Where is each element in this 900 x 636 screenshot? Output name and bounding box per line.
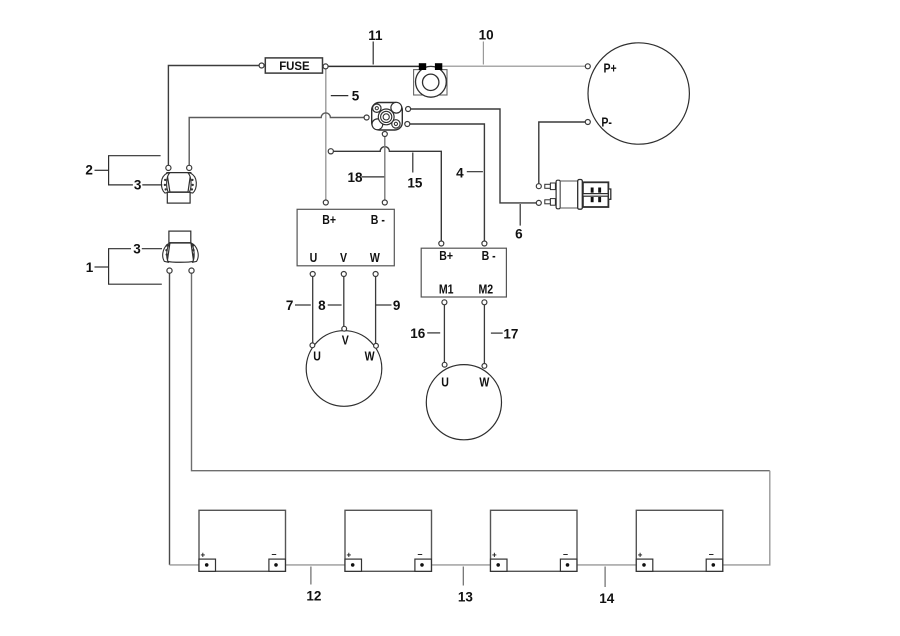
svg-text:U: U [313, 348, 321, 363]
motor M1 (U/V/W) [306, 326, 382, 406]
node A: tap on fuse line feeding controller2 [328, 149, 333, 154]
label 7 [286, 298, 311, 313]
label 15 [407, 153, 423, 191]
wire: valve bottom terminal down to controller1 B- [384, 137, 386, 201]
svg-text:+: + [201, 551, 206, 560]
label 14 [599, 567, 615, 606]
label 6 [515, 204, 523, 242]
label 4 [456, 165, 483, 180]
svg-text:15: 15 [407, 175, 423, 190]
battery B1 [199, 510, 286, 571]
svg-text:+: + [638, 551, 643, 560]
valve / throttle unit [364, 102, 411, 136]
svg-text:–: – [563, 549, 568, 559]
label 3 (upper) [134, 178, 162, 193]
wire: valve right-top terminal to solenoid bottom terminal [411, 109, 537, 203]
motor M2 (U/W) [426, 362, 501, 439]
wire: controller1 W to motor1 W [375, 277, 377, 344]
label 12 [306, 567, 321, 604]
svg-text:9: 9 [393, 298, 401, 313]
label 2 with bracket [85, 156, 160, 185]
svg-text:P+: P+ [604, 60, 617, 75]
svg-text:4: 4 [456, 165, 464, 180]
svg-text:M2: M2 [479, 281, 494, 296]
svg-text:16: 16 [410, 326, 426, 341]
wire: controller1 U to motor1 U [312, 277, 314, 344]
svg-text:+: + [492, 551, 497, 560]
wire: lower connector left terminal down to battery1 plus [169, 273, 171, 565]
svg-text:P-: P- [601, 115, 612, 130]
wire: valve right-bottom terminal to controller2 B- [410, 124, 485, 241]
solenoid terminals [536, 184, 541, 189]
svg-text:2: 2 [85, 163, 93, 178]
wire: fuse to upper connector left terminal [168, 66, 259, 166]
battery B2 [345, 510, 432, 571]
wire: key switch to pump motor P+ [442, 65, 585, 67]
wire: node A junction to controller2 B+ (hop over valve wire) [333, 147, 441, 241]
label 10 [479, 27, 494, 64]
svg-text:6: 6 [515, 227, 523, 242]
wire: controller1 V to motor1 V [343, 277, 345, 327]
fuse F1 [259, 58, 328, 73]
svg-text:–: – [709, 549, 714, 559]
svg-text:10: 10 [479, 27, 494, 42]
svg-text:FUSE: FUSE [279, 59, 310, 73]
label 18 [348, 170, 385, 185]
svg-text:17: 17 [503, 327, 518, 342]
label 9 [376, 298, 401, 313]
wire: controller2 M2 to motor2 W [483, 305, 485, 364]
label 1 with bracket [86, 249, 162, 285]
svg-text:–: – [418, 549, 423, 559]
key switch S1 [414, 63, 447, 97]
svg-text:U: U [310, 250, 318, 265]
svg-text:18: 18 [348, 170, 364, 185]
label 5 [331, 89, 360, 104]
wire: battery3 to battery4 link [568, 564, 644, 566]
controller U2 (B+/B-/M1/M2) [421, 241, 506, 305]
valve terminals [364, 115, 369, 120]
svg-text:+: + [347, 551, 352, 560]
svg-text:8: 8 [318, 298, 326, 313]
svg-text:W: W [479, 374, 490, 389]
svg-text:B+: B+ [322, 212, 336, 227]
svg-text:1: 1 [86, 260, 94, 275]
wire: fuse right terminal down to controller1 B+ [325, 69, 327, 200]
svg-text:11: 11 [368, 28, 383, 43]
svg-text:V: V [340, 250, 347, 265]
wire: lower connector right terminal return to battery4 minus [192, 273, 770, 471]
wire: upper connector right terminal to valve left terminal (hop over vertical) [189, 113, 364, 166]
svg-text:B -: B - [482, 248, 496, 263]
wire: controller2 M1 to motor2 U [443, 305, 445, 362]
svg-text:12: 12 [306, 589, 321, 604]
svg-text:W: W [370, 250, 381, 265]
solenoid / contactor [536, 180, 611, 210]
svg-text:5: 5 [352, 89, 360, 104]
label 11 [368, 28, 383, 64]
wire: battery1 to battery2 link [276, 564, 352, 566]
svg-text:U: U [441, 374, 449, 389]
svg-text:14: 14 [599, 591, 615, 606]
label 13 [458, 567, 474, 605]
wire: pump motor P- to solenoid top terminal [539, 122, 586, 184]
lower connector (items 1/3) [163, 231, 198, 273]
svg-text:W: W [365, 348, 376, 363]
label 8 [318, 298, 342, 313]
controller U1 (B+/B-/U/V/W) [297, 200, 394, 277]
svg-text:13: 13 [458, 590, 474, 605]
svg-text:3: 3 [133, 242, 141, 257]
svg-text:3: 3 [134, 178, 142, 193]
battery B3 [491, 510, 578, 571]
battery B4 [636, 510, 723, 571]
svg-text:V: V [342, 332, 349, 347]
svg-text:B -: B - [371, 212, 385, 227]
label 17 [491, 327, 519, 342]
svg-text:–: – [272, 549, 277, 559]
svg-text:B+: B+ [439, 248, 453, 263]
upper connector (items 2/3) [161, 165, 196, 203]
svg-text:M1: M1 [439, 281, 454, 296]
svg-text:7: 7 [286, 298, 294, 313]
wire: fuse right terminal to key switch [328, 65, 419, 67]
label 16 [410, 326, 440, 341]
wire: battery2 to battery3 link [422, 564, 498, 566]
label 3 (lower) [133, 242, 162, 257]
pump motor M3 (P+/P-) [585, 43, 689, 144]
